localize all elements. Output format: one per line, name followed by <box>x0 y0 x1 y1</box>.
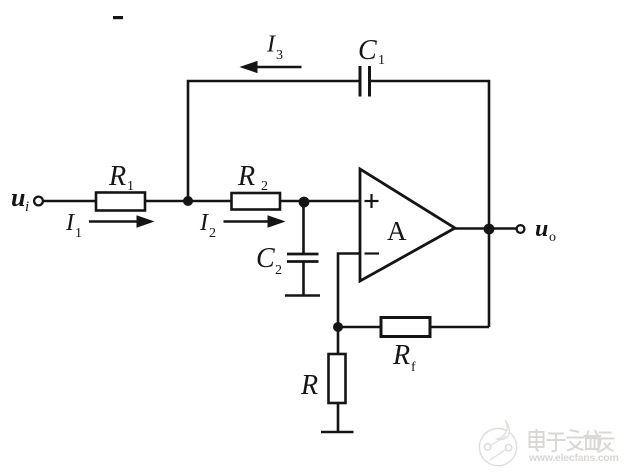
svg-text:www.elecfans.com: www.elecfans.com <box>528 452 619 464</box>
